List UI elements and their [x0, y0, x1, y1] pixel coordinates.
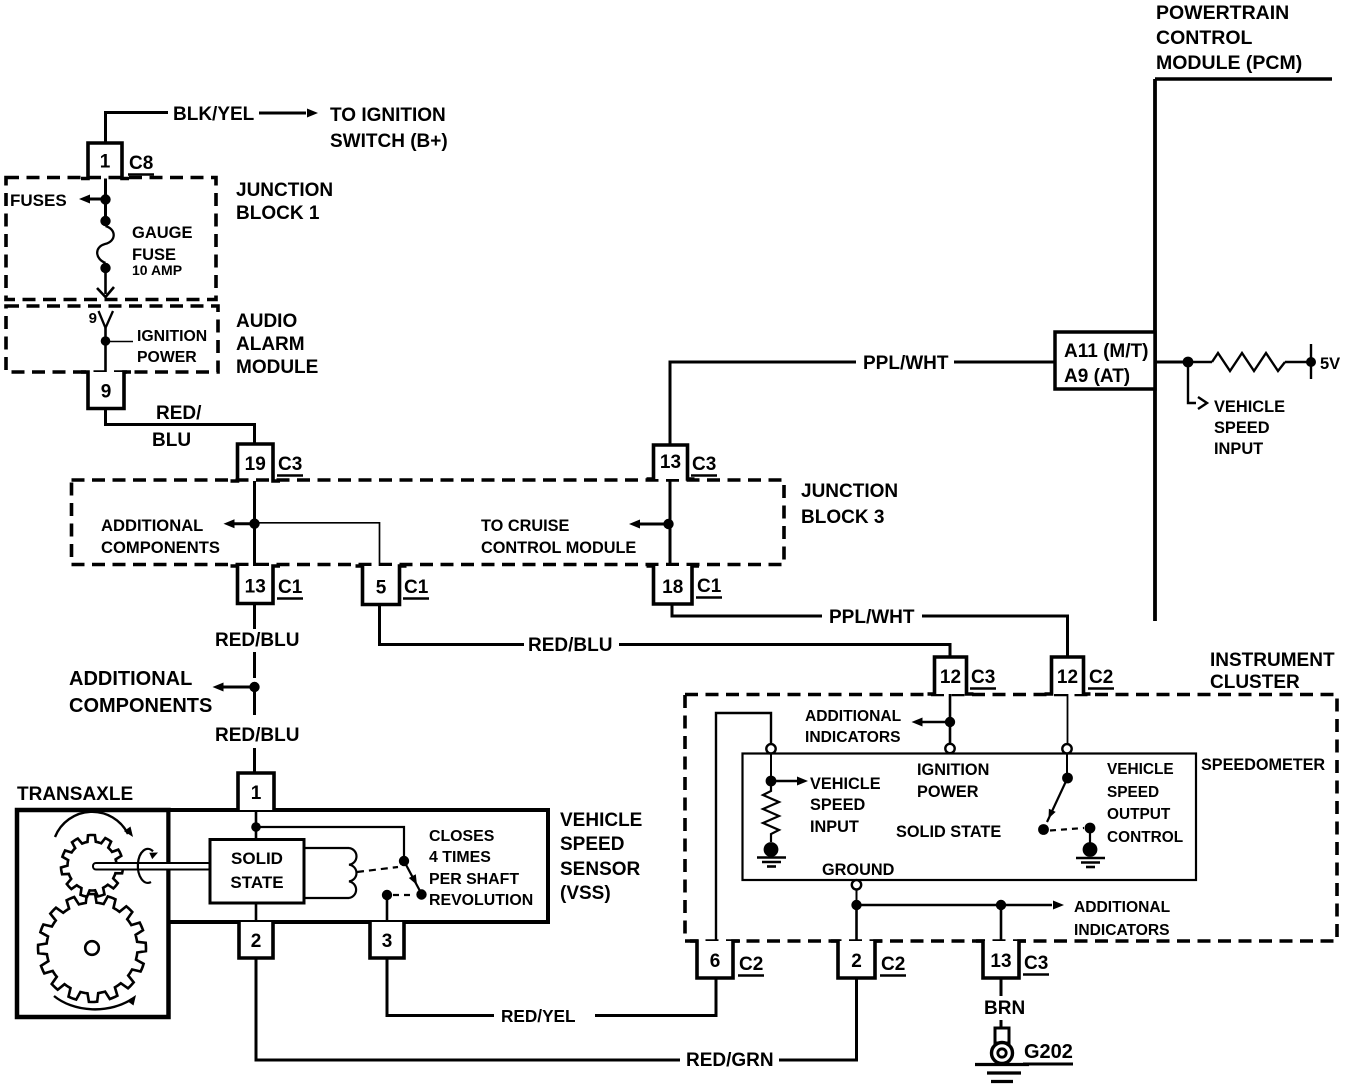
svg-text:BLOCK 3: BLOCK 3 [801, 507, 884, 528]
svg-text:OUTPUT: OUTPUT [1107, 806, 1171, 823]
svg-text:C3: C3 [692, 454, 716, 475]
label C2 of 12 [1088, 667, 1114, 689]
svg-text:SOLID STATE: SOLID STATE [896, 823, 1001, 841]
label FUSES [10, 191, 67, 210]
label ADDITIONAL INDICATORS bottom [1074, 899, 1171, 939]
label C8 [128, 153, 154, 175]
svg-text:ADDITIONAL: ADDITIONAL [1074, 899, 1171, 916]
label ADDITIONAL COMPONENTS left [69, 668, 212, 717]
fuse output arrow [97, 268, 114, 297]
gear arrow top [55, 812, 133, 837]
transaxle large gear [38, 894, 146, 1002]
node jb3 left [249, 519, 259, 529]
audio alarm module dashed box [6, 306, 218, 372]
svg-text:TRANSAXLE: TRANSAXLE [17, 784, 133, 805]
label PPL/WHT lower [829, 607, 915, 628]
junction block 3 dashed box [72, 480, 785, 565]
arrow additional components left [213, 683, 253, 692]
connector 2 vss [232, 922, 280, 958]
svg-text:TO CRUISE: TO CRUISE [481, 517, 569, 535]
label C1 of 18 [696, 576, 722, 598]
vss switch dashed link [393, 894, 414, 896]
node switch contact left [1038, 824, 1049, 835]
svg-text:SENSOR: SENSOR [560, 859, 641, 880]
svg-text:ADDITIONAL: ADDITIONAL [805, 708, 902, 725]
wire 6C2 up and over [716, 713, 771, 941]
svg-text:G202: G202 [1024, 1041, 1073, 1063]
wire A11 to node [1155, 361, 1185, 364]
svg-text:C8: C8 [129, 153, 153, 174]
label CLOSES 4 TIMES PER SHAFT REVOLUTION [429, 828, 533, 909]
svg-text:5V: 5V [1320, 355, 1340, 373]
wire resistor to 5V [1285, 361, 1308, 363]
svg-text:A9 (AT): A9 (AT) [1064, 366, 1130, 387]
switch blade [1047, 778, 1068, 822]
label ADDITIONAL COMPONENTS jb3 [101, 516, 220, 557]
arrow additional indicators top [912, 718, 949, 727]
wire 19C3 to 13C1 [253, 481, 256, 566]
svg-text:BLK/YEL: BLK/YEL [173, 104, 255, 125]
ground vsi [757, 842, 786, 866]
label INSTRUMENT CLUSTER [1210, 650, 1335, 693]
svg-text:INDICATORS: INDICATORS [1074, 922, 1170, 939]
svg-text:COMPONENTS: COMPONENTS [69, 695, 212, 717]
svg-text:PPL/WHT: PPL/WHT [863, 353, 949, 374]
connector 13 C3 bottom [976, 941, 1026, 978]
svg-text:ALARM: ALARM [236, 334, 305, 355]
resistor vsi [763, 786, 779, 842]
svg-text:RED/GRN: RED/GRN [686, 1050, 774, 1071]
transaxle small gear [61, 835, 123, 897]
label RED/BLU left2 [215, 725, 299, 746]
svg-text:REVOLUTION: REVOLUTION [429, 892, 533, 909]
label RED/YEL [501, 1006, 576, 1026]
node ground right [996, 900, 1006, 910]
svg-text:SPEED: SPEED [1107, 784, 1159, 801]
connector 1 C8 [81, 143, 129, 179]
arrow to cruise control [629, 520, 666, 529]
label BRN [984, 998, 1025, 1019]
label RED/BLU left1 [215, 630, 299, 651]
node vsi [766, 776, 777, 787]
svg-text:1: 1 [251, 783, 262, 804]
svg-text:RED/BLU: RED/BLU [215, 630, 299, 651]
instrument cluster dashed box [685, 695, 1337, 942]
label C3 of 13 top [691, 454, 717, 476]
svg-text:6: 6 [710, 951, 721, 972]
label SOLID STATE speedo [896, 823, 1001, 841]
connector 13 C1 [231, 566, 281, 604]
wire terminal to switch [1066, 754, 1068, 774]
gauge fuse 10 amp squiggle [97, 226, 114, 263]
label C3 of 12 [970, 667, 996, 689]
label 5V [1320, 355, 1340, 373]
wire pin1 into vss [255, 810, 258, 839]
wire PPL/WHT 18C1 to 12C2 [672, 604, 1068, 657]
svg-text:BLOCK 1: BLOCK 1 [236, 203, 320, 224]
svg-text:JUNCTION: JUNCTION [236, 180, 333, 201]
label AUDIO ALARM MODULE [236, 311, 318, 378]
resistor pull-up [1212, 353, 1285, 371]
vss coil [304, 848, 356, 898]
wire contact to pin3 [386, 895, 389, 922]
svg-text:10 AMP: 10 AMP [132, 262, 182, 278]
svg-text:SPEED: SPEED [1214, 419, 1270, 437]
label SPEEDOMETER [1201, 756, 1325, 774]
wire terminal to vsi node [770, 754, 772, 777]
svg-text:4 TIMES: 4 TIMES [429, 849, 491, 866]
node vehicle speed input [1183, 357, 1194, 368]
shaft rotation arrow [138, 849, 158, 883]
connector 6 C2 [690, 941, 740, 978]
svg-text:12: 12 [1057, 667, 1078, 688]
svg-text:C1: C1 [404, 577, 429, 598]
wire 13C1 down b [253, 652, 256, 678]
wire RED/BLU 5C1 to 12C3 [380, 605, 951, 658]
wire ground to 13C3 [1000, 905, 1003, 941]
node vss input [251, 822, 261, 832]
label ADDITIONAL INDICATORS top [805, 708, 902, 746]
wire vss to switch [256, 827, 404, 856]
wire node to resistor [1191, 361, 1212, 363]
svg-text:C2: C2 [739, 954, 763, 975]
svg-text:9: 9 [101, 382, 112, 403]
svg-text:A11 (M/T): A11 (M/T) [1064, 341, 1148, 362]
elbow arrow vehicle speed input [1188, 367, 1207, 409]
solid state box [210, 840, 304, 904]
svg-text:JUNCTION: JUNCTION [801, 481, 898, 502]
label VEHICLE SPEED SENSOR (VSS) [560, 810, 642, 904]
terminal ground [852, 880, 861, 889]
wire 12C2 to output terminal [1067, 694, 1069, 744]
svg-text:C1: C1 [278, 577, 303, 598]
terminal ignition power [945, 744, 954, 753]
svg-text:13: 13 [245, 577, 266, 598]
svg-text:18: 18 [662, 577, 683, 598]
connector 5 C1 [356, 566, 407, 605]
svg-text:CLOSES: CLOSES [429, 828, 494, 845]
wire 13C1 down a [253, 604, 256, 630]
wire ground terminal down [856, 890, 858, 906]
connector 18 C1 [647, 566, 700, 604]
svg-text:SOLID: SOLID [231, 849, 283, 868]
node additional components [249, 682, 259, 692]
node 5V [1306, 344, 1316, 379]
node ground left [851, 900, 861, 910]
svg-text:2: 2 [251, 931, 262, 952]
pin 9 fork [99, 311, 114, 372]
gear arrow bottom [54, 995, 136, 1009]
arrow additional indicators bottom [1053, 901, 1064, 910]
svg-text:MODULE: MODULE [236, 357, 318, 378]
wire BLK/YEL to connector 1 [106, 113, 169, 144]
svg-text:VEHICLE: VEHICLE [1107, 761, 1174, 778]
vss switch blade [404, 861, 420, 891]
wire 12C3 to ignition power terminal [949, 694, 952, 744]
label VEHICLE SPEED INPUT pcm [1214, 398, 1285, 458]
svg-text:INDICATORS: INDICATORS [805, 729, 901, 746]
svg-text:C2: C2 [1089, 667, 1113, 688]
svg-text:C2: C2 [881, 954, 905, 975]
arrow to ignition switch [259, 109, 318, 118]
svg-text:VEHICLE: VEHICLE [560, 810, 642, 831]
node vss switch blade end [416, 889, 426, 899]
svg-text:RED/: RED/ [156, 403, 202, 424]
coil to blade dashed link [357, 867, 398, 872]
svg-text:VEHICLE: VEHICLE [1214, 398, 1285, 416]
label IGNITION POWER speedo [917, 761, 989, 801]
switch dashed link [1050, 828, 1084, 831]
node fuse upper [100, 216, 110, 226]
svg-text:IGNITION: IGNITION [137, 328, 207, 345]
svg-text:ADDITIONAL: ADDITIONAL [69, 668, 192, 690]
label TO IGNITION SWITCH (B+) [330, 105, 448, 152]
label TRANSAXLE [17, 784, 133, 805]
svg-text:CONTROL: CONTROL [1107, 829, 1183, 846]
label IGNITION POWER [137, 328, 207, 366]
node fuse top [100, 194, 110, 204]
node vss switch contact [382, 890, 392, 900]
node vss switch top [399, 856, 409, 866]
wire BRN [1000, 978, 1003, 996]
connector 12 C2 [1045, 657, 1091, 694]
connector 12 C3 [928, 657, 974, 694]
svg-text:SWITCH (B+): SWITCH (B+) [330, 131, 448, 152]
powertrain control module outline [1155, 79, 1332, 621]
label RED/ BLU [152, 403, 202, 451]
connector 19 C3 [231, 444, 281, 481]
wire RED/GRN pin2 to 2C2 [256, 958, 857, 1060]
svg-text:13: 13 [990, 951, 1011, 972]
svg-text:BRN: BRN [984, 998, 1025, 1019]
svg-text:FUSES: FUSES [10, 191, 67, 210]
node switch top [1062, 773, 1073, 784]
svg-text:MODULE (PCM): MODULE (PCM) [1156, 52, 1302, 74]
ground G202 symbol [975, 1020, 1029, 1082]
label C3 of 13 bottom [1023, 953, 1049, 975]
label C2 of 2 [880, 954, 906, 976]
wire down c [253, 687, 256, 715]
arrow additional components jb3 [224, 519, 253, 528]
label BLK/YEL [173, 104, 255, 125]
wire RED/YEL pin3 to 6C2 [387, 958, 716, 1016]
wire ground bus [857, 904, 1053, 907]
label C2 of 6 [738, 954, 764, 976]
svg-text:COMPONENTS: COMPONENTS [101, 538, 220, 557]
label PPL/WHT top [863, 353, 949, 374]
svg-text:POWERTRAIN: POWERTRAIN [1156, 2, 1289, 24]
label RED/GRN [686, 1050, 774, 1071]
label VEHICLE SPEED OUTPUT CONTROL [1107, 761, 1183, 846]
label C1 of 5 [403, 577, 429, 599]
label pin 9 [89, 310, 97, 327]
label RED/BLU mid [528, 635, 612, 656]
node ignition power tap [101, 336, 133, 346]
svg-text:3: 3 [382, 931, 393, 952]
connector 2 C2 [831, 941, 882, 978]
svg-text:PPL/WHT: PPL/WHT [829, 607, 915, 628]
wire RED/BLU 9 to 19C3 [106, 409, 255, 445]
label JUNCTION BLOCK 1 [236, 180, 333, 224]
label VEHICLE SPEED INPUT speedo [810, 775, 881, 836]
svg-text:CONTROL MODULE: CONTROL MODULE [481, 539, 636, 557]
arrow to fuses [79, 195, 104, 204]
svg-text:GROUND: GROUND [822, 861, 895, 879]
svg-text:12: 12 [940, 667, 961, 688]
svg-text:(VSS): (VSS) [560, 883, 611, 904]
node fuse lower [100, 263, 110, 273]
label C3 of 19 [277, 454, 303, 476]
wire PPL/WHT 13C3 to A11 [670, 362, 1055, 445]
pin box A11/A9 [1055, 332, 1155, 389]
node switch contact right [1085, 823, 1096, 834]
svg-text:1: 1 [100, 152, 111, 173]
connector 9 [81, 372, 131, 409]
svg-text:TO IGNITION: TO IGNITION [330, 105, 446, 126]
svg-text:AUDIO: AUDIO [236, 311, 297, 332]
svg-text:VEHICLE: VEHICLE [810, 775, 881, 793]
label G202 [1023, 1041, 1073, 1064]
connector 3 vss [363, 922, 411, 958]
svg-text:GAUGE: GAUGE [132, 224, 193, 242]
junction block 1 dashed box [6, 178, 216, 300]
svg-text:POWER: POWER [137, 349, 197, 366]
shaft [93, 863, 211, 870]
label GAUGE FUSE 10 AMP [132, 224, 193, 278]
label POWERTRAIN CONTROL MODULE (PCM) [1156, 2, 1302, 74]
svg-text:STATE: STATE [230, 873, 283, 892]
svg-text:C3: C3 [1024, 953, 1048, 974]
svg-text:INPUT: INPUT [810, 818, 859, 836]
svg-text:RED/YEL: RED/YEL [501, 1006, 576, 1026]
svg-text:SPEED: SPEED [560, 834, 624, 855]
svg-text:ADDITIONAL: ADDITIONAL [101, 516, 203, 535]
arrow vsi [776, 777, 808, 786]
svg-text:POWER: POWER [917, 783, 979, 801]
terminal output control [1062, 744, 1071, 753]
wire jb3 branch to 5C1 [255, 523, 380, 566]
svg-text:2: 2 [851, 951, 862, 972]
vehicle speed sensor box [169, 810, 549, 922]
label C1 of 13 [277, 577, 303, 599]
svg-text:INSTRUMENT: INSTRUMENT [1210, 650, 1335, 671]
svg-text:SPEEDOMETER: SPEEDOMETER [1201, 756, 1325, 774]
wire down d [253, 748, 256, 773]
terminal vehicle speed input [766, 744, 775, 753]
svg-text:5: 5 [376, 578, 387, 599]
node additional indicators top [945, 717, 955, 727]
connector 1 vss [231, 773, 281, 810]
label GROUND [822, 861, 895, 879]
svg-text:RED/BLU: RED/BLU [215, 725, 299, 746]
wire junction block 1 vertical [104, 179, 107, 227]
svg-text:C3: C3 [971, 667, 995, 688]
wire 13C3 to 18C1 [669, 479, 672, 566]
svg-text:C1: C1 [697, 576, 722, 597]
svg-text:SPEED: SPEED [810, 796, 865, 814]
ground output control [1076, 842, 1105, 867]
connector 13 C3 top [647, 445, 695, 479]
label TO CRUISE CONTROL MODULE [481, 517, 636, 557]
svg-text:PER SHAFT: PER SHAFT [429, 871, 519, 888]
svg-text:BLU: BLU [152, 430, 191, 451]
svg-text:13: 13 [660, 452, 681, 473]
svg-text:CLUSTER: CLUSTER [1210, 672, 1300, 693]
speedometer box [743, 754, 1197, 881]
svg-text:C3: C3 [278, 454, 302, 475]
transaxle box [17, 810, 169, 1017]
svg-text:IGNITION: IGNITION [917, 761, 989, 779]
wire ground to 2C2 [855, 905, 858, 941]
svg-text:9: 9 [89, 310, 97, 327]
wire contact to ground [1089, 830, 1091, 843]
svg-text:INPUT: INPUT [1214, 440, 1263, 458]
label JUNCTION BLOCK 3 [801, 481, 898, 528]
svg-text:19: 19 [245, 454, 266, 475]
svg-text:CONTROL: CONTROL [1156, 27, 1252, 49]
wire solid state to pin2 [255, 903, 258, 922]
node jb3 right [663, 519, 673, 529]
svg-text:RED/BLU: RED/BLU [528, 635, 612, 656]
